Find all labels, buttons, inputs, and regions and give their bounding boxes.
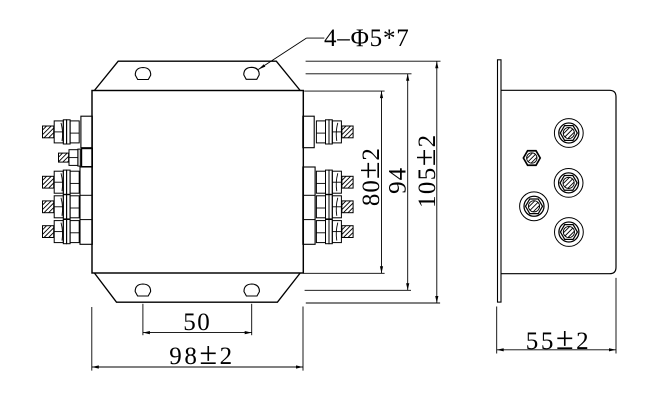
screw terminal A (side view) — [554, 119, 583, 148]
ground screw (side view) — [523, 151, 540, 166]
dimension 55±2 (depth) — [497, 278, 616, 356]
top mounting flange — [94, 61, 300, 90]
svg-text:50: 50 — [183, 309, 211, 336]
terminal base plate L2 (ground) — [82, 149, 93, 167]
terminal base strip R3-R5 — [303, 167, 315, 244]
screw terminal C (side view) — [555, 218, 584, 247]
load terminal R5 — [316, 220, 353, 244]
svg-text:4–Φ5*7: 4–Φ5*7 — [324, 25, 410, 52]
side view body outline — [501, 90, 616, 273]
side view mounting flange plate — [498, 60, 502, 302]
svg-text:94: 94 — [385, 167, 412, 194]
mounting hole top-left — [135, 68, 150, 80]
terminal base strip L3-L5 — [80, 167, 92, 244]
terminal base plate R1 — [303, 116, 314, 148]
dimension 50 (hole spacing) — [143, 304, 252, 336]
load terminal R1 — [316, 120, 353, 144]
dimension 80±2 (body height) — [303, 91, 386, 273]
screw terminal D (side view) — [520, 192, 549, 221]
label 4-Φ5*7 — [324, 25, 410, 52]
dimension 105±2 (flange height) — [306, 61, 442, 303]
ground terminal L2 — [59, 149, 81, 166]
line terminal L4 — [43, 195, 80, 219]
line terminal L1 — [43, 120, 80, 144]
line terminal L5 — [43, 220, 80, 244]
load terminal R4 — [316, 195, 353, 219]
mounting hole bottom-left — [135, 284, 150, 296]
bottom mounting flange — [94, 273, 300, 302]
line terminal L3 — [43, 170, 80, 194]
dimension 98±2 (body width) — [92, 307, 303, 372]
mounting hole bottom-right — [244, 284, 259, 296]
dimension 94 (hole spacing vertical) — [305, 74, 412, 290]
filter body front view — [92, 91, 303, 274]
screw terminal B (side view) — [554, 169, 583, 198]
mounting hole top-right — [244, 67, 259, 79]
load terminal R3 — [316, 170, 353, 194]
leader line to mounting hole — [258, 38, 325, 71]
terminal base plate L1 — [81, 116, 92, 148]
